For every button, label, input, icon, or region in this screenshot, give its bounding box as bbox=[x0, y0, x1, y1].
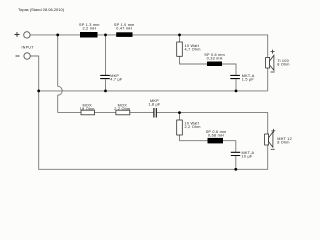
svg-text:0,33 mH: 0,33 mH bbox=[207, 56, 223, 60]
svg-text:4,7 µF: 4,7 µF bbox=[110, 77, 123, 81]
svg-text:2,2 Ohm: 2,2 Ohm bbox=[114, 107, 130, 111]
svg-text:10 µF: 10 µF bbox=[242, 155, 253, 159]
svg-text:1,5 µF: 1,5 µF bbox=[242, 77, 255, 81]
svg-text:8 Ohm: 8 Ohm bbox=[277, 140, 290, 144]
svg-text:Topas (Stand 28.06.2010): Topas (Stand 28.06.2010) bbox=[18, 7, 65, 12]
svg-text:18 Ohm: 18 Ohm bbox=[80, 107, 95, 111]
svg-text:2,2 mH: 2,2 mH bbox=[83, 27, 97, 31]
svg-text:4,7 Ohm: 4,7 Ohm bbox=[185, 47, 201, 51]
svg-text:0,47 mH: 0,47 mH bbox=[116, 27, 132, 31]
svg-text:8 Ohm: 8 Ohm bbox=[277, 63, 290, 67]
svg-text:2,2 Ohm: 2,2 Ohm bbox=[185, 125, 201, 129]
svg-text:INPUT: INPUT bbox=[22, 46, 35, 50]
svg-text:0,68 mH: 0,68 mH bbox=[208, 133, 224, 137]
svg-text:1,8 µF: 1,8 µF bbox=[148, 103, 161, 107]
